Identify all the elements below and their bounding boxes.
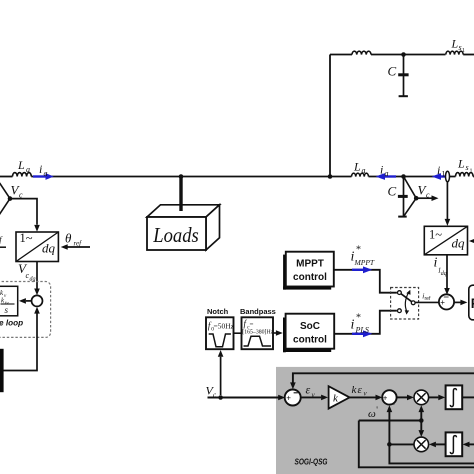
current arrow i_a (left, blue) — [33, 175, 47, 177]
svg-text:1~: 1~ — [20, 231, 33, 245]
capacitor C (top) plate — [398, 73, 408, 76]
wire top feeder left — [330, 54, 352, 56]
svg-text:C: C — [388, 64, 397, 79]
svg-text:i: i — [437, 163, 440, 177]
SoC control box shadow — [283, 318, 286, 353]
wire top feeder middle — [371, 54, 446, 56]
switch throw contact (top) — [398, 291, 402, 295]
current controller box (cropped) — [469, 285, 474, 320]
svg-text:C: C — [388, 184, 397, 199]
Loads box right face — [206, 205, 220, 250]
svg-text:1~: 1~ — [429, 228, 442, 242]
mode switch dashed box — [391, 288, 419, 320]
junction node top branch — [328, 174, 333, 179]
svg-text:dq: dq — [452, 236, 466, 251]
inductor L_s1 (top) — [446, 51, 463, 54]
transform block 1~/dq (left) — [16, 232, 58, 262]
svg-text:s: s — [5, 305, 9, 315]
svg-text:a: a — [385, 169, 389, 178]
svg-text:i: i — [39, 162, 42, 176]
wire switch to current sum — [415, 301, 440, 303]
svg-text:s: s — [466, 163, 469, 172]
integrator 2 — [446, 432, 463, 456]
svg-text:SoC: SoC — [300, 321, 320, 332]
junction node top capacitor — [401, 52, 406, 57]
svg-text:*: * — [356, 245, 361, 256]
integrator 1 — [446, 385, 463, 409]
PI controller box (cropped) — [0, 286, 18, 316]
wire main AC bus middle segment — [31, 176, 351, 178]
svg-text:+: + — [440, 298, 445, 307]
wire dq to summing node — [36, 262, 38, 289]
svg-text:control: control — [293, 335, 327, 346]
junction node lower capacitor — [401, 174, 406, 179]
svg-text:MPPT: MPPT — [296, 259, 324, 270]
Bandpass filter box — [242, 317, 274, 349]
wire Loads tap (thick) — [179, 177, 182, 212]
svg-text:Bandpass: Bandpass — [240, 307, 276, 316]
wire main bus right segment — [369, 176, 456, 178]
wire inverter feedback to summing node — [3, 314, 37, 371]
wire probe to dq (left) — [10, 199, 37, 225]
svg-text:L: L — [451, 37, 459, 51]
svg-text:*: * — [356, 313, 361, 324]
wire integrator 1 output v' — [462, 396, 474, 398]
svg-text:ε: ε — [306, 383, 311, 397]
junction node Loads tap — [179, 174, 184, 179]
wire V_c into SOGI — [208, 397, 279, 399]
arrow sum to PI box — [26, 300, 31, 302]
MPPT control box — [286, 252, 334, 287]
junction node V_c tap — [218, 395, 223, 400]
switch throw contact (bottom) — [398, 309, 402, 313]
svg-text:dq: dq — [441, 271, 447, 277]
wire omega' distribution — [359, 420, 422, 422]
capacitor C (lower) end bar — [398, 216, 407, 218]
svg-text:+: + — [383, 394, 388, 403]
svg-text:Loads: Loads — [152, 223, 198, 247]
inverter block (cropped) — [0, 349, 4, 392]
wire notch to bandpass — [234, 332, 242, 334]
switch toggle arc — [405, 292, 409, 312]
inductor L_a (left) — [13, 173, 32, 177]
svg-text:a: a — [26, 165, 30, 174]
Loads box top face — [147, 205, 220, 217]
wire V_c to notch filter — [220, 357, 222, 395]
svg-text:ref: ref — [425, 296, 431, 302]
wire CT to dq transform — [446, 182, 448, 220]
summing node (voltage loop) — [32, 295, 43, 306]
wire SoC to switch — [334, 311, 397, 334]
wire main AC bus left segment — [0, 176, 13, 178]
wire MPPT to switch — [334, 270, 397, 293]
transform block 1~/dq (right) — [424, 226, 467, 255]
svg-text:ω: ω — [368, 408, 376, 420]
inductor (top feeder) — [352, 51, 371, 54]
switch common contact — [411, 301, 415, 305]
arrow sum1 to gain k — [301, 396, 322, 398]
svg-text:a: a — [44, 169, 48, 178]
svg-text:+: + — [286, 394, 291, 403]
svg-text:1: 1 — [470, 169, 473, 175]
capacitor C (lower) lead — [403, 177, 405, 216]
svg-text:ε: ε — [358, 384, 363, 396]
svg-text:L: L — [17, 158, 25, 172]
voltage probe V_c (left, cropped) — [0, 178, 10, 199]
SOGI summing node 1 — [285, 390, 301, 406]
multiplier 1 — [414, 390, 429, 405]
inductor L_a (right) — [352, 173, 369, 176]
inductor L_s1 (right) — [455, 173, 473, 177]
arrow theta_ref into left dq box — [66, 246, 90, 248]
wire omega' loop to right edge — [359, 421, 474, 468]
svg-text:L: L — [457, 157, 465, 171]
current arrow i_1 (blue) — [440, 175, 445, 177]
arrow bandpass to SoC control — [273, 332, 276, 334]
svg-text:=: = — [250, 320, 254, 328]
MPPT control box shadow — [283, 255, 286, 290]
svg-text:PLS: PLS — [355, 326, 369, 335]
current reference arrow i*_MPPT (blue) — [352, 269, 364, 271]
SOGI-QSG block background — [276, 367, 474, 474]
svg-text:SOGI-QSG: SOGI-QSG — [295, 457, 328, 467]
wire dq to current sum — [446, 255, 448, 288]
gain triangle k — [329, 386, 350, 408]
Notch filter box — [206, 317, 234, 349]
svg-text:=50Hz: =50Hz — [214, 321, 235, 330]
svg-text:c: c — [426, 191, 430, 200]
svg-text:Notch: Notch — [207, 307, 229, 316]
wire branch vertical to top feeder — [329, 55, 331, 177]
svg-text:[165–380]Hz: [165–380]Hz — [242, 330, 273, 336]
wire multiplier 2 to qv' feedback — [389, 443, 414, 445]
arrow sum2 to multiplier 1 — [397, 396, 408, 398]
wire top feeder right — [463, 54, 474, 56]
wire main bus rightmost — [472, 176, 474, 178]
Loads box front face — [147, 217, 206, 250]
arrow sum to controller box — [454, 301, 461, 303]
svg-text:θ: θ — [65, 231, 72, 246]
multiplier 2 — [414, 437, 429, 452]
svg-text:L: L — [353, 160, 361, 174]
wire into integrator 2 from right edge — [469, 443, 474, 445]
svg-text:a: a — [362, 166, 366, 175]
arrow theta_ref into right dq box (cropped) — [471, 240, 474, 242]
svg-text:e loop: e loop — [0, 319, 23, 328]
svg-text:i: i — [380, 163, 383, 177]
CT sensor ellipse — [446, 171, 450, 182]
current reference arrow i*_PLS (blue) — [352, 333, 364, 335]
SOGI top feedback wire — [293, 373, 474, 382]
capacitor C (top) end bar — [399, 95, 408, 97]
capacitor C (lower) plate — [398, 195, 408, 198]
svg-text:dq: dq — [42, 241, 56, 256]
arrow integrator 2 to multiplier 2 — [436, 443, 446, 445]
SOGI summing node 2 — [382, 390, 396, 404]
arrow gain to sum2 — [350, 396, 376, 398]
wire qv' to right edge — [389, 444, 474, 463]
svg-text:1: 1 — [462, 48, 465, 54]
current arrow i_a (right, blue) — [384, 175, 396, 177]
arrow multiplier 1 to integrator 1 — [429, 396, 439, 398]
svg-text:control: control — [293, 272, 327, 283]
svg-text:i: i — [351, 318, 355, 333]
svg-text:MPPT: MPPT — [354, 258, 375, 267]
svg-text:ref: ref — [74, 240, 83, 248]
voltage probe V_c (right) — [404, 177, 417, 199]
capacitor C (top) lead — [403, 55, 405, 96]
dashed box voltage loop — [0, 282, 51, 338]
switch arm — [401, 294, 412, 302]
SoC control box — [286, 314, 335, 349]
current summing node — [439, 294, 454, 309]
